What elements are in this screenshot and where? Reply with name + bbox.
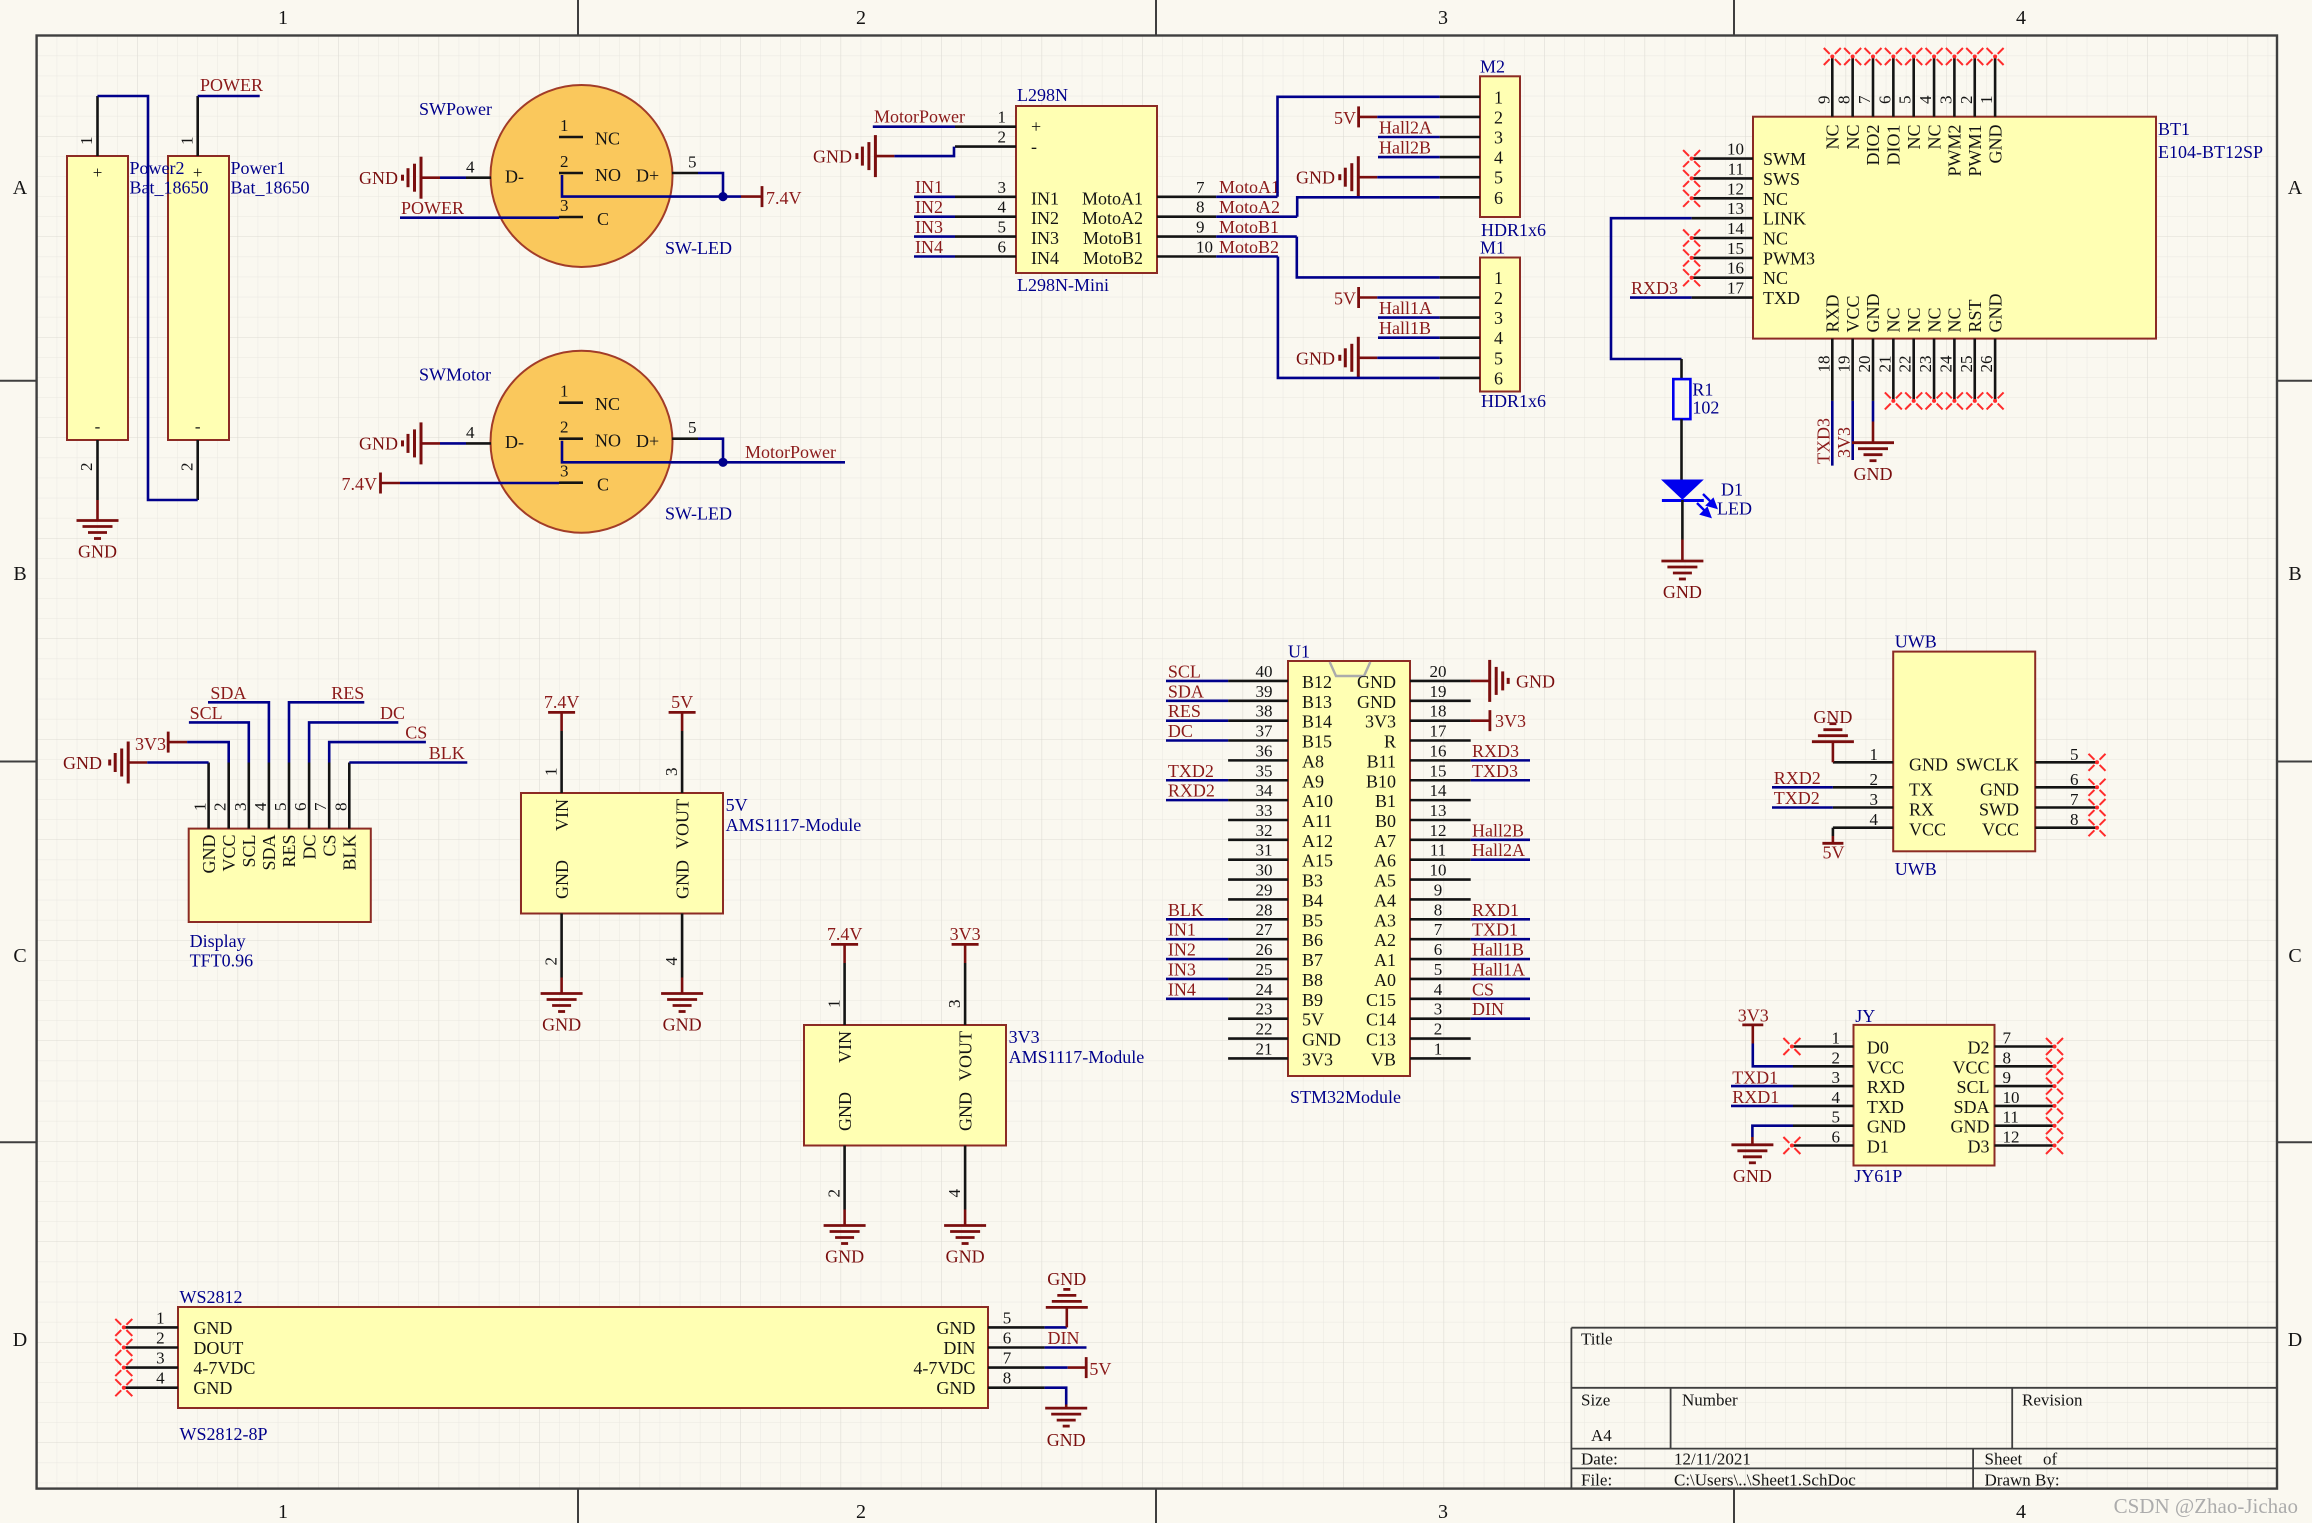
svg-text:A7: A7: [1374, 831, 1396, 851]
svg-text:A6: A6: [1374, 851, 1396, 871]
net label IN3 at L298N pin 5: [914, 235, 955, 238]
svg-text:6: 6: [2070, 770, 2079, 789]
svg-text:VCC: VCC: [1952, 1057, 1989, 1077]
svg-text:BLK: BLK: [1168, 900, 1204, 920]
svg-text:TXD3: TXD3: [1472, 761, 1518, 781]
U1 left pins 40-21: [1228, 680, 1288, 683]
svg-text:3: 3: [560, 462, 569, 481]
svg-text:Number: Number: [1682, 1391, 1738, 1410]
L298N left pins 1-6: [955, 125, 1016, 128]
svg-text:NC: NC: [1763, 229, 1788, 249]
svg-text:3: 3: [560, 196, 569, 215]
svg-text:1: 1: [560, 382, 569, 401]
svg-text:26: 26: [1256, 940, 1273, 959]
svg-text:NO: NO: [595, 165, 621, 185]
svg-text:GND: GND: [825, 1247, 864, 1267]
svg-text:of: of: [2043, 1450, 2058, 1469]
ground at UWB pin 1: [1812, 724, 1854, 742]
svg-text:2: 2: [178, 463, 197, 472]
no-connect marks UWB right pins: [2089, 754, 2106, 771]
ground at M2 pin 5: [1340, 156, 1378, 198]
svg-text:GND: GND: [359, 434, 398, 454]
svg-text:D-: D-: [505, 167, 524, 187]
wire 5V to M2 pin 2: [1377, 116, 1439, 119]
svg-text:7: 7: [2070, 790, 2079, 809]
svg-text:DC: DC: [380, 703, 405, 723]
svg-text:18: 18: [1814, 356, 1833, 373]
svg-text:B11: B11: [1367, 751, 1396, 771]
svg-text:38: 38: [1256, 702, 1273, 721]
svg-text:VOUT: VOUT: [956, 1031, 976, 1081]
svg-text:TXD1: TXD1: [1732, 1067, 1778, 1087]
svg-text:TX: TX: [1909, 779, 1933, 799]
svg-text:D+: D+: [636, 166, 659, 186]
net label TXD2 at UWB pin 3: [1772, 806, 1833, 809]
svg-text:24: 24: [1936, 355, 1955, 373]
net label RXD1 at U1 pin 8: [1471, 918, 1530, 921]
svg-text:3V3: 3V3: [1365, 712, 1396, 732]
svg-text:9: 9: [1196, 218, 1205, 237]
svg-text:UWB: UWB: [1895, 859, 1937, 879]
net label IN2 at U1 pin 26: [1166, 958, 1228, 961]
svg-text:Hall2B: Hall2B: [1472, 820, 1524, 840]
U1 notch: [1330, 662, 1371, 676]
svg-text:13: 13: [1727, 199, 1744, 218]
AMS1117 3V3 pin 2 GND: [843, 1146, 846, 1210]
svg-text:7.4V: 7.4V: [827, 924, 863, 944]
svg-text:7.4V: 7.4V: [766, 188, 802, 208]
net label IN1 at L298N pin 3: [914, 196, 955, 199]
AMS1117 5V pin 2 GND: [560, 914, 563, 978]
svg-text:-: -: [195, 417, 201, 436]
net label SCL at U1 pin 40: [1166, 680, 1228, 683]
wire 5V to M1 pin 2: [1377, 296, 1439, 299]
svg-text:3V3: 3V3: [1009, 1027, 1040, 1047]
svg-text:TXD2: TXD2: [1774, 788, 1820, 808]
svg-text:12: 12: [1727, 179, 1744, 198]
svg-text:GND: GND: [1296, 348, 1335, 368]
svg-text:RST: RST: [1965, 299, 1985, 332]
svg-text:GND: GND: [1813, 707, 1852, 727]
ground at WS2812 pin 8: [1065, 1405, 1068, 1409]
svg-text:Title: Title: [1581, 1330, 1613, 1349]
AMS1117 5V pin 4 GND: [681, 914, 684, 978]
ground at SWMotor pin 4: [403, 422, 441, 464]
no-connect marks BT1 bottom pins: [1885, 392, 1902, 409]
svg-text:GND: GND: [1951, 1117, 1990, 1137]
svg-text:POWER: POWER: [401, 198, 464, 218]
svg-text:20: 20: [1430, 662, 1447, 681]
svg-text:1: 1: [178, 137, 197, 146]
wire GND to Display pin 1: [147, 761, 208, 764]
wire 3V3 to JY pin 2: [1753, 1044, 1793, 1067]
svg-text:DIO1: DIO1: [1884, 125, 1904, 166]
svg-text:IN1: IN1: [915, 177, 943, 197]
wire SWMotor GND to pin 4: [440, 442, 466, 445]
svg-text:3V3: 3V3: [950, 924, 981, 944]
wire Power2.1 to Power1.2: [98, 96, 198, 500]
svg-text:4: 4: [1870, 810, 1879, 829]
svg-text:9: 9: [1434, 880, 1443, 899]
svg-text:DIN: DIN: [943, 1338, 975, 1358]
svg-text:MotoA1: MotoA1: [1219, 177, 1280, 197]
svg-text:2: 2: [1832, 1048, 1841, 1067]
module UWB: [1893, 652, 2035, 852]
svg-text:B: B: [2288, 563, 2301, 585]
net label MotoB2 at L298N pin 10: [1216, 255, 1278, 258]
svg-text:C: C: [597, 475, 609, 495]
svg-text:5: 5: [1494, 168, 1503, 188]
net label RXD1 at JY pin 4: [1731, 1105, 1793, 1108]
svg-text:4: 4: [156, 1369, 165, 1388]
svg-text:MotorPower: MotorPower: [874, 107, 965, 127]
svg-text:IN2: IN2: [915, 197, 943, 217]
svg-text:-: -: [95, 417, 101, 436]
svg-text:1: 1: [1832, 1029, 1841, 1048]
ground at AMS1117 5V pin 4: [681, 978, 684, 994]
svg-text:25: 25: [1256, 960, 1273, 979]
net label DC at U1 pin 37: [1166, 739, 1228, 742]
svg-text:-: -: [1031, 137, 1037, 157]
svg-text:2: 2: [211, 803, 230, 812]
svg-text:39: 39: [1256, 682, 1273, 701]
svg-text:3: 3: [1832, 1068, 1841, 1087]
svg-text:SCL: SCL: [1168, 661, 1201, 681]
svg-text:17: 17: [1430, 722, 1448, 741]
AMS1117 3V3 pin 1 VIN: [843, 963, 846, 1025]
wire MotoA1 to M2 pin 1: [1278, 97, 1440, 197]
net label DIN at WS2812 pin 6: [1045, 1346, 1087, 1349]
ground at L298N pin 2: [857, 135, 895, 177]
svg-text:A5: A5: [1374, 871, 1396, 891]
svg-text:37: 37: [1256, 722, 1274, 741]
svg-text:5: 5: [271, 803, 290, 812]
svg-text:MotoB2: MotoB2: [1083, 248, 1143, 268]
wire D1 to GND: [1681, 500, 1684, 540]
net label TXD3 at BT1 pin 18 (vertical): [1831, 401, 1834, 466]
svg-text:TXD: TXD: [1763, 288, 1800, 308]
svg-text:A4: A4: [1591, 1426, 1612, 1445]
svg-text:Power2: Power2: [130, 158, 185, 178]
svg-text:30: 30: [1256, 861, 1273, 880]
svg-text:11: 11: [2003, 1108, 2019, 1127]
svg-text:5V: 5V: [1334, 289, 1356, 309]
svg-text:RES: RES: [1168, 701, 1201, 721]
svg-text:B14: B14: [1302, 712, 1332, 732]
svg-text:GND: GND: [956, 1092, 976, 1131]
svg-text:11: 11: [1728, 159, 1744, 178]
svg-text:8: 8: [1835, 96, 1854, 105]
Display pins 1-8: [207, 763, 210, 829]
svg-text:AMS1117-Module: AMS1117-Module: [726, 815, 862, 835]
svg-text:10: 10: [2003, 1088, 2020, 1107]
svg-text:GND: GND: [1357, 672, 1396, 692]
svg-text:RXD3: RXD3: [1631, 278, 1678, 298]
wire 3V3 to Display pin 2: [187, 742, 229, 762]
svg-text:BLK: BLK: [429, 743, 465, 763]
svg-text:1: 1: [560, 116, 569, 135]
svg-text:+: +: [93, 163, 103, 182]
svg-text:4: 4: [1916, 95, 1935, 104]
svg-text:15: 15: [1727, 239, 1744, 258]
battery Power1 pin 2: [196, 440, 199, 500]
net label RXD3 at U1 pin 16: [1471, 759, 1530, 762]
svg-text:7: 7: [1003, 1349, 1012, 1368]
net label TXD2 at U1 pin 35: [1166, 779, 1228, 782]
svg-text:2: 2: [156, 1329, 165, 1348]
SWPower pin 4 D-: [466, 176, 491, 179]
svg-text:4: 4: [1494, 148, 1503, 168]
svg-text:RXD3: RXD3: [1472, 741, 1519, 761]
svg-text:IN2: IN2: [1031, 208, 1059, 228]
svg-text:26: 26: [1977, 356, 1996, 373]
wire GND to M1 pin 5: [1377, 356, 1439, 359]
svg-text:5: 5: [1494, 348, 1503, 368]
svg-text:UWB: UWB: [1895, 632, 1937, 652]
ground at U1 pin 20: [1471, 660, 1509, 702]
svg-text:NC: NC: [595, 394, 620, 414]
svg-text:VCC: VCC: [219, 835, 239, 872]
svg-text:WS2812: WS2812: [180, 1287, 243, 1307]
svg-text:GND: GND: [936, 1318, 975, 1338]
svg-text:DOUT: DOUT: [193, 1338, 243, 1358]
svg-text:5: 5: [688, 418, 697, 437]
svg-text:4: 4: [2016, 7, 2026, 29]
svg-text:CS: CS: [1472, 979, 1494, 999]
svg-text:IN3: IN3: [1031, 228, 1059, 248]
svg-text:MotoB1: MotoB1: [1083, 228, 1143, 248]
svg-text:5: 5: [1832, 1108, 1841, 1127]
svg-text:GND: GND: [1733, 1166, 1772, 1186]
power 7.4V at SWPower: [761, 186, 764, 207]
net label RXD2 at UWB pin 2: [1772, 786, 1833, 789]
svg-text:7.4V: 7.4V: [544, 692, 580, 712]
svg-text:34: 34: [1256, 781, 1274, 800]
svg-text:21: 21: [1256, 1039, 1273, 1058]
svg-text:3: 3: [1434, 1000, 1443, 1019]
svg-text:17: 17: [1727, 279, 1745, 298]
svg-text:4: 4: [1434, 980, 1443, 999]
svg-text:10: 10: [1430, 861, 1447, 880]
battery Power2 pin 1: [96, 96, 99, 156]
wire JY pin 5 to GND: [1752, 1126, 1793, 1137]
svg-text:U1: U1: [1288, 642, 1310, 662]
svg-text:10: 10: [1727, 140, 1744, 159]
svg-text:GND: GND: [78, 542, 117, 562]
svg-text:SWD: SWD: [1979, 800, 2019, 820]
svg-text:R: R: [1384, 732, 1396, 752]
svg-text:GND: GND: [936, 1378, 975, 1398]
svg-text:DIN: DIN: [1472, 999, 1504, 1019]
svg-text:A0: A0: [1374, 970, 1396, 990]
svg-text:3: 3: [1494, 308, 1503, 328]
junction at SWPower output: [718, 192, 727, 201]
svg-text:+: +: [1031, 117, 1041, 137]
svg-text:3V3: 3V3: [1302, 1049, 1333, 1069]
net label CS at Display pin 7: [329, 742, 426, 762]
svg-text:GND: GND: [1296, 168, 1335, 188]
svg-text:31: 31: [1256, 841, 1273, 860]
svg-text:Hall1A: Hall1A: [1472, 959, 1525, 979]
svg-text:A3: A3: [1374, 910, 1396, 930]
wire MotoB1 to M1 pin 1: [1297, 237, 1440, 278]
UWB right pins 5-8: [2035, 761, 2097, 764]
svg-text:IN2: IN2: [1168, 940, 1196, 960]
net label TXD1 at U1 pin 7: [1471, 938, 1530, 941]
BT1 top pins 9-1: [1831, 57, 1834, 117]
M1 pins 1-6: [1440, 276, 1480, 279]
svg-text:8: 8: [331, 803, 350, 812]
svg-text:5V: 5V: [671, 692, 693, 712]
no-connect marks BT1 top pins: [1824, 48, 1841, 65]
svg-text:LED: LED: [1717, 499, 1752, 519]
svg-text:BT1: BT1: [2158, 119, 2190, 139]
wire GND to M2 pin 5: [1377, 176, 1439, 179]
svg-text:40: 40: [1256, 662, 1273, 681]
svg-text:1: 1: [278, 1501, 288, 1523]
module BT1 E104-BT12SP: [1753, 117, 2156, 339]
wire WS2812 pin 8 to GND: [1045, 1388, 1067, 1405]
SWMotor pin 5 D+: [672, 437, 698, 440]
svg-text:SW-LED: SW-LED: [665, 504, 732, 524]
svg-text:GND: GND: [552, 860, 572, 899]
net label Hall2A at U1 pin 11: [1471, 858, 1530, 861]
svg-text:MotoB1: MotoB1: [1219, 217, 1279, 237]
svg-text:NC: NC: [1945, 307, 1965, 332]
svg-text:VCC: VCC: [1843, 295, 1863, 332]
svg-text:B9: B9: [1302, 990, 1323, 1010]
svg-text:C: C: [2288, 945, 2301, 967]
svg-text:JY: JY: [1855, 1006, 1875, 1026]
svg-text:NC: NC: [1924, 307, 1944, 332]
svg-text:D1: D1: [1867, 1137, 1889, 1157]
net label SCL at Display pin 3: [189, 722, 249, 762]
net label MotorPower at L298N pin 1: [873, 125, 955, 128]
SWMotor pin 3 C: [559, 481, 583, 484]
svg-text:NC: NC: [1904, 125, 1924, 150]
svg-text:SCL: SCL: [239, 835, 259, 868]
switch SWMotor SW-LED: [491, 351, 673, 533]
svg-text:MotoA2: MotoA2: [1219, 197, 1280, 217]
svg-text:B3: B3: [1302, 871, 1323, 891]
svg-text:GND: GND: [199, 835, 219, 874]
svg-text:14: 14: [1727, 219, 1745, 238]
svg-text:B12: B12: [1302, 672, 1332, 692]
svg-text:Date:: Date:: [1581, 1450, 1618, 1469]
svg-text:8: 8: [2070, 810, 2079, 829]
svg-text:8: 8: [1196, 198, 1205, 217]
ground at AMS1117 5V pin 2: [560, 978, 563, 994]
svg-text:6: 6: [1875, 96, 1894, 105]
AMS1117 5V pin 3 VOUT: [681, 731, 684, 793]
svg-text:7: 7: [1196, 178, 1205, 197]
svg-text:7: 7: [311, 802, 330, 811]
module WS2812 WS2812-8P: [178, 1307, 988, 1408]
no-connect marks BT1 left pins: [1683, 150, 1700, 167]
svg-text:4: 4: [251, 802, 270, 811]
svg-text:12/11/2021: 12/11/2021: [1674, 1450, 1751, 1469]
svg-text:19: 19: [1835, 356, 1854, 373]
svg-text:5: 5: [1003, 1308, 1012, 1327]
svg-text:CS: CS: [405, 723, 427, 743]
svg-text:C15: C15: [1366, 990, 1396, 1010]
svg-text:3: 3: [1936, 96, 1955, 105]
svg-text:NC: NC: [595, 129, 620, 149]
svg-text:Hall1A: Hall1A: [1379, 298, 1432, 318]
power 7.4V at AMS1117 3V3 pin 1: [843, 944, 846, 963]
svg-text:6: 6: [1494, 188, 1503, 208]
svg-text:GND: GND: [1357, 692, 1396, 712]
svg-text:SWMotor: SWMotor: [419, 365, 491, 385]
svg-text:VCC: VCC: [1909, 820, 1946, 840]
svg-text:3V3: 3V3: [135, 734, 166, 754]
svg-text:28: 28: [1256, 900, 1273, 919]
svg-text:1: 1: [1494, 87, 1503, 107]
svg-text:D3: D3: [1968, 1137, 1990, 1157]
svg-text:GND: GND: [1047, 1269, 1086, 1289]
svg-text:NC: NC: [1884, 307, 1904, 332]
svg-text:4: 4: [945, 1189, 964, 1198]
svg-text:21: 21: [1875, 356, 1894, 373]
JY left pins 1-6: [1793, 1045, 1854, 1048]
ground at SWPower pin 4: [403, 157, 441, 199]
svg-text:7: 7: [1434, 920, 1443, 939]
svg-text:GND: GND: [1980, 779, 2019, 799]
svg-text:RXD1: RXD1: [1732, 1087, 1779, 1107]
net label POWER at SWPower pin 3: [400, 216, 559, 219]
svg-text:1: 1: [1977, 96, 1996, 105]
svg-text:GND: GND: [1516, 671, 1555, 691]
svg-text:29: 29: [1256, 880, 1273, 899]
svg-text:PWM2: PWM2: [1945, 125, 1965, 177]
svg-text:5: 5: [1896, 96, 1915, 105]
svg-text:11: 11: [1430, 841, 1446, 860]
svg-text:1: 1: [191, 803, 210, 812]
svg-text:A12: A12: [1302, 831, 1333, 851]
WS2812 left pins 1-4: [124, 1326, 178, 1329]
no-connect marks WS2812 left pins: [115, 1319, 132, 1336]
svg-text:Hall2B: Hall2B: [1379, 138, 1431, 158]
wire BT1 pin 13 LINK to R1: [1611, 218, 1692, 359]
svg-text:19: 19: [1430, 682, 1447, 701]
svg-text:D-: D-: [505, 432, 524, 452]
svg-text:Hall2A: Hall2A: [1379, 118, 1432, 138]
svg-text:1: 1: [825, 1000, 844, 1009]
svg-text:1: 1: [998, 108, 1007, 127]
svg-text:Size: Size: [1581, 1391, 1610, 1410]
svg-text:NO: NO: [595, 431, 621, 451]
wire UWB pin 4 to 5V: [1832, 828, 1835, 836]
svg-text:14: 14: [1430, 781, 1448, 800]
svg-text:SDA: SDA: [1953, 1097, 1989, 1117]
svg-text:STM32Module: STM32Module: [1290, 1087, 1401, 1107]
junction at SWMotor output: [718, 458, 727, 467]
svg-text:DC: DC: [1168, 721, 1193, 741]
svg-text:2: 2: [1957, 96, 1976, 105]
svg-text:5V: 5V: [1823, 843, 1845, 863]
svg-text:2: 2: [856, 1501, 866, 1523]
svg-text:12: 12: [2003, 1128, 2020, 1147]
svg-text:B: B: [13, 563, 26, 585]
net label DC at Display pin 6: [309, 722, 398, 762]
svg-text:NC: NC: [1763, 189, 1788, 209]
svg-text:E104-BT12SP: E104-BT12SP: [2158, 142, 2263, 162]
wire SWMotor pin5/pin2 to output: [698, 439, 723, 463]
svg-text:6: 6: [998, 238, 1007, 257]
net label Hall2A at M2 pin 3: [1378, 136, 1440, 139]
title block: [1571, 1328, 2277, 1489]
svg-text:RES: RES: [279, 835, 299, 868]
